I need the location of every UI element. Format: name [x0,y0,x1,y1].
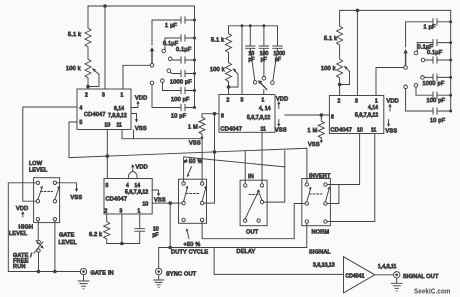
wire: gate-in bottom bus [8,271,80,273]
op IC U3 CD4047 (right, signal monostable) [329,96,383,134]
wire: sync out drop [158,248,160,269]
wire: right pin 1 to selector pole [376,68,404,96]
svg-text:3,6,10,13: 3,6,10,13 [313,263,335,269]
wire: sync line to buffer [159,247,307,249]
svg-text:100 k: 100 k [210,67,225,73]
selector wiper arrow (right bank) [405,53,407,66]
svg-text:3: 3 [241,98,244,104]
node: pot/pin2 junction [86,85,90,89]
potentiometer 100k (middle) [226,63,232,88]
svg-text:5,6,7,9,12: 5,6,7,9,12 [247,115,270,121]
svg-text:LEVEL: LEVEL [29,168,47,174]
svg-text:CD4041: CD4041 [346,274,365,280]
svg-text:8: 8 [221,114,224,120]
svg-text:VSS: VSS [386,129,398,135]
switch S2 gate/free-run toggle [37,240,40,243]
VDD arrow (right IC) [389,106,391,111]
wire: RC bottom bus (gate IC) [107,214,140,244]
wire: right pot to pin 2 [339,85,341,96]
capacitor 0.01uF (left bank) [172,57,195,64]
svg-text:CD4047: CD4047 [331,128,353,134]
wiper arms S5 [307,189,311,202]
svg-text:CD4047: CD4047 [106,197,128,203]
svg-text:1000 pF: 1000 pF [423,81,445,87]
wire: invert bottom-left to buffer input [306,223,308,247]
connector SYNC OUT [156,268,162,274]
svg-text:100 k: 100 k [66,66,81,72]
wire: middle pot to pin 2 [228,87,230,95]
VSS arrow below 1M (left-middle) [201,134,203,137]
svg-text:5: 5 [80,120,83,126]
svg-text:5,6,7,9,12: 5,6,7,9,12 [125,190,148,196]
svg-text:6,14: 6,14 [114,106,124,112]
wire: right top rail [340,9,451,11]
wire: buffer output [375,274,394,276]
svg-text:4,14: 4,14 [368,105,378,111]
svg-text:100 pF: 100 pF [427,98,446,104]
wire: signal bus diagonal to invert switch [69,148,307,182]
VDD hump (gate IC pins 4,14) [129,172,137,179]
svg-text:1000 pF: 1000 pF [170,80,192,86]
ground (gate in) [78,275,89,289]
svg-text:INVERT: INVERT [309,174,331,180]
svg-text:5.1 k: 5.1 k [68,32,81,38]
svg-text:VSS: VSS [71,195,83,201]
svg-text:1: 1 [375,99,378,105]
selector pole contact (left bank) [150,64,154,68]
svg-text:2: 2 [105,209,108,215]
svg-text:SIGNAL: SIGNAL [309,250,331,256]
svg-text:DELAY: DELAY [237,249,256,255]
svg-text:10: 10 [105,123,111,129]
node: junction top rail / pin3 line [103,4,107,8]
svg-text:10 pF: 10 pF [430,118,446,124]
svg-text:11: 11 [117,123,123,129]
svg-text:IN: IN [248,174,254,180]
svg-text:GATE: GATE [59,233,75,239]
svg-text:OUT: OUT [246,230,259,236]
gang link dashed S4 [249,194,258,196]
svg-text:1 µF: 1 µF [165,23,178,29]
wiper arms S1 [38,188,42,199]
svg-text:HIGH: HIGH [19,225,34,231]
op-amp style buffer U5 CD4041 [344,257,375,293]
svg-text:SeekIC.com: SeekIC.com [414,287,451,296]
wire: between 5.1k and 100k [87,47,89,59]
wire: right IC pin10 to invert top-right [327,134,360,185]
svg-text:CD4047: CD4047 [221,127,243,133]
resistor 1M (right-middle, pin8 pulldown) [318,115,324,138]
svg-text:1 µF: 1 µF [424,25,437,31]
connector GATE IN [80,268,86,274]
node: duty common / bus junction [213,150,217,154]
resistor 5.1k (middle) [226,26,232,63]
gang link dashed S5 [309,193,323,195]
wire: delay sw common to right 1M / pin8 [264,115,330,202]
svg-text:6.2 k: 6.2 k [89,232,102,238]
svg-text:LOW: LOW [29,161,43,167]
gang link dashed S1 [41,191,53,193]
svg-text:pF: pF [249,57,255,63]
wiper arms S3 [184,188,188,201]
svg-text:14: 14 [135,183,141,189]
wire: left IC pin 5 down to gate bus [69,122,77,158]
selector pole contact (right bank) [404,66,408,70]
capacitor 0.1uF (left bank) [165,35,195,50]
svg-text:2: 2 [338,99,341,105]
svg-text:VDD: VDD [136,165,148,171]
wiper arrow (middle bank selector) [261,83,267,89]
svg-text:SIGNAL OUT: SIGNAL OUT [403,274,439,280]
capacitor 100pF (right bank) [416,87,451,98]
capacitor 10pF (right bank) [406,89,451,115]
connector SIGNAL OUT [394,272,400,278]
svg-text:0.1µF: 0.1µF [427,50,443,56]
svg-text:pF: pF [275,57,281,63]
resistor 5.1k (left oscillator) [85,28,91,47]
wire: duty cycle common up to pin8 node [204,114,215,203]
svg-text:VDD: VDD [276,96,288,102]
svg-text:VSS: VSS [189,141,201,147]
svg-text:7,8,9,12: 7,8,9,12 [108,113,127,119]
wiper arrow of right pot [344,66,349,71]
capacitor 10pF (left bank) [152,85,195,111]
potentiometer 100k (right) [337,59,343,85]
wire: 1uF left lead down to selector (right) [405,22,407,47]
svg-text:RUN: RUN [13,264,26,270]
capacitor 1uF (right bank) [406,19,451,26]
svg-text:1: 1 [138,209,141,215]
cap bank right rail (right oscillator) [450,10,452,111]
wire: top rail to pin 3 [104,6,106,89]
svg-text:VSS: VSS [275,127,287,133]
wire: toggle bottom to gate bus [38,252,40,271]
switch S5 invert/norm [302,179,331,226]
VSS arrow (left IC) [131,114,137,120]
wire: pin 1 to cap selector pole [123,65,150,89]
svg-text:1: 1 [121,93,124,99]
svg-text:4: 4 [80,106,83,112]
wire: 1uF left lead down to selector [151,20,153,45]
wire: duty bottom-right to invert middle-left [202,204,305,239]
svg-text:VDD: VDD [387,99,399,105]
svg-text:DUTY CYCLE: DUTY CYCLE [171,250,208,256]
wire: middle pin 11 down to delay switch [261,132,263,183]
capacitor 1uF (left bank) [152,17,195,24]
resistor 5.1k (right) [337,10,343,59]
capacitor 1000pF (middle bank) [273,26,283,81]
wire: VSS tie stub [133,130,135,139]
svg-text:1: 1 [262,98,265,104]
svg-text:10: 10 [143,202,149,208]
wire: gate IC pin 10 output [152,202,182,204]
svg-text:5.1 k: 5.1 k [211,38,224,44]
svg-text:2: 2 [85,93,88,99]
VSS arrow (middle IC) [278,120,280,125]
wiper arrow of middle pot [233,69,238,74]
svg-text:100 pF: 100 pF [171,97,190,103]
op IC U2 CD4047 (middle, delay monostable) [219,95,275,133]
switch S4 delay in/out [240,180,267,226]
svg-text:pF: pF [261,57,267,63]
svg-text:0.1µF: 0.1µF [176,47,192,53]
gang link dashed S3 [186,193,200,195]
svg-text:NORM: NORM [312,230,330,236]
wire: middle selector pole to pin 1 [263,90,265,95]
VSS arrow below right 1M [320,138,322,141]
svg-text:8: 8 [106,183,109,189]
wire: 1M to middle IC pin 8 [202,113,219,115]
svg-text:LEVEL: LEVEL [9,231,27,237]
resistor 6.2k (gate IC timing) [104,214,110,244]
resistor 1M (left-middle, pin8 pulldown) [199,114,205,134]
switch S3 duty cycle [179,179,207,223]
svg-text:10: 10 [357,128,363,134]
svg-text:1 M: 1 M [188,125,198,131]
VDD arrow (level switch) [22,214,24,218]
wire: trigger line B duty top-left to middle pin 8 [184,157,285,182]
capacitor 10pF (gate IC timing) [135,214,145,244]
capacitor 100pF (middle bank) [259,26,269,77]
wire: left rail to level box [8,183,36,272]
switch S1 level select (DPDT box) [34,178,60,223]
svg-text:5,6,7,9,12: 5,6,7,9,12 [355,113,378,119]
selector wiper arrow (left bank) [151,51,153,64]
svg-text:LEVEL: LEVEL [59,240,77,246]
capacitor 1000pF (right bank) [424,74,450,81]
svg-text:11: 11 [261,127,267,133]
wire: gate level line [54,221,56,272]
svg-text:CD4047: CD4047 [84,112,106,118]
svg-text:100 k: 100 k [321,66,336,72]
svg-text:10 pF: 10 pF [171,114,187,120]
op IC U4 CD4047 (gate oscillator) [104,179,152,215]
wire: middle top rail to pin 3 [241,26,243,95]
capacitor 1000pF (left bank) [170,70,194,77]
wire: right IC pin11 to invert bottom-right [327,134,375,222]
wire: right top rail to pin 3 [356,10,358,95]
potentiometer 100k (left oscillator) [85,59,91,78]
svg-text:≠ 50 %: ≠ 50 % [184,159,203,165]
wire: wiper to bottom junction [88,75,99,87]
wiper arms S4 [245,192,258,219]
capacitor 100pF (left bank) [163,83,195,94]
VDD arrow (left IC) [131,103,138,108]
svg-text:VSS: VSS [135,126,147,132]
svg-text:3: 3 [355,99,358,105]
svg-text:11: 11 [371,128,377,134]
svg-text:VDD: VDD [16,206,28,212]
cap bank right rail (left oscillator) [194,6,196,108]
wiper arrow of 100k pot [93,69,100,75]
wire: delay top-left feed from bus [244,151,246,184]
wire: buffer input via drop [214,248,343,275]
ground (sync out) [154,275,164,288]
VDD arrow (middle IC) [278,104,280,109]
svg-text:4, 14: 4, 14 [259,106,271,112]
VSS arrow (gate IC) [152,190,158,194]
wire: pot bottom to pin 2 [87,78,89,89]
wire: 5.1k top lead [87,6,89,28]
svg-text:3: 3 [102,93,105,99]
svg-text:SYNC OUT: SYNC OUT [166,272,197,278]
svg-text:4: 4 [126,183,129,189]
svg-text:1 M: 1 M [308,128,318,134]
svg-text:GATE IN: GATE IN [91,271,114,277]
wire: invert middle-right L link [327,185,339,204]
svg-text:8: 8 [331,115,334,121]
capacitor 0.1uF (right bank) [417,39,450,51]
svg-text:2: 2 [227,98,230,104]
VSS arrow (right IC) [388,120,390,125]
wire: left IC pin 10 down to gate IC pin 8 [106,130,108,179]
wire: left oscillator top rail [88,5,195,7]
svg-text:5.1 k: 5.1 k [324,36,337,42]
node: pin10 / bus junction [106,154,110,158]
wire: middle top rail [229,25,278,27]
wire: left IC pin 4 to level switch [23,107,77,201]
svg-text:VDD: VDD [135,96,147,102]
svg-text:VSS: VSS [154,198,166,204]
ground (signal out) [391,278,402,291]
capacitor 0.01uF (right bank) [425,57,451,64]
svg-text:pF: pF [153,233,159,239]
wire: toggle top to level box [37,221,39,240]
svg-text:1,4,8,11: 1,4,8,11 [378,264,397,270]
wire: left IC pin 11 to duty cycle switch top-right [122,130,202,182]
capacitor 10pF (middle bank) [246,26,256,81]
wire+VSS arrow from S1 top right [57,183,77,189]
svg-text:VSS: VSS [308,142,320,148]
op IC U1 CD4047 (left oscillator) [77,89,131,130]
